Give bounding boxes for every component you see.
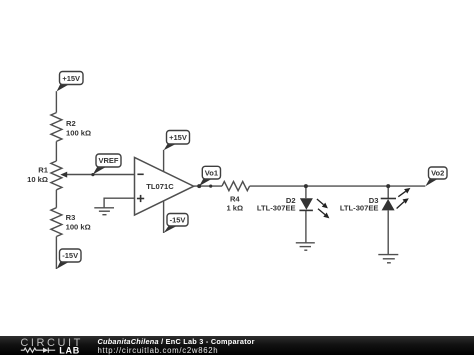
svg-text:-15V: -15V	[170, 215, 186, 224]
svg-text:TL071C: TL071C	[146, 182, 174, 191]
svg-text:R4: R4	[230, 195, 240, 204]
svg-text:R3: R3	[66, 213, 76, 222]
svg-text:Vo2: Vo2	[431, 169, 444, 178]
svg-text:LTL-307EE: LTL-307EE	[257, 204, 296, 213]
svg-text:10 kΩ: 10 kΩ	[27, 175, 48, 184]
svg-text:-15V: -15V	[62, 251, 78, 260]
svg-text:LAB: LAB	[59, 346, 80, 355]
svg-text:Vo1: Vo1	[205, 168, 218, 177]
svg-text:R2: R2	[66, 119, 76, 128]
svg-text:http://circuitlab.com/c2w862h: http://circuitlab.com/c2w862h	[98, 346, 219, 355]
svg-text:1 kΩ: 1 kΩ	[226, 204, 243, 213]
svg-text:100 kΩ: 100 kΩ	[66, 223, 91, 232]
svg-text:+15V: +15V	[62, 74, 80, 83]
svg-text:CubanitaChilena / EnC Lab 3 -: CubanitaChilena / EnC Lab 3 - Comparator	[98, 337, 255, 346]
svg-text:100 kΩ: 100 kΩ	[66, 129, 91, 138]
svg-text:LTL-307EE: LTL-307EE	[340, 204, 379, 213]
svg-text:R1: R1	[38, 165, 48, 174]
svg-text:VREF: VREF	[98, 156, 118, 165]
svg-text:+15V: +15V	[169, 133, 187, 142]
